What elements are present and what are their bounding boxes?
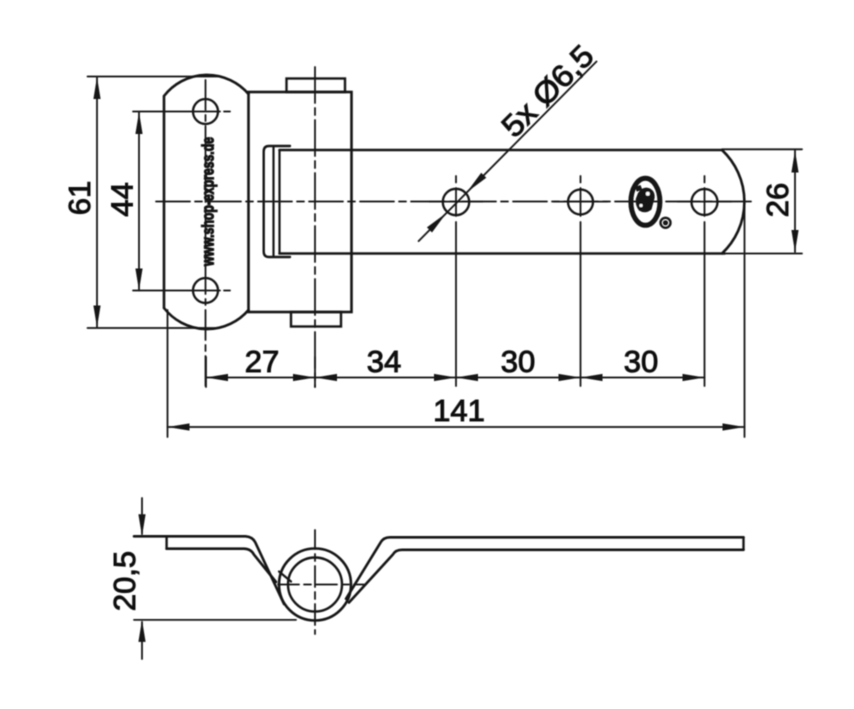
hole strap 3: [692, 189, 718, 215]
svg-text:141: 141: [433, 393, 485, 428]
side view right strap top line: [346, 537, 744, 599]
extension line plate top: [88, 76, 221, 78]
dimension 30 b: [581, 374, 705, 381]
dimension 20,5: [138, 498, 145, 659]
dimension 30 a: [456, 374, 581, 381]
svg-text:www.shop-express.de: www.shop-express.de: [200, 137, 218, 267]
hole crosshair horizontals strap: [429, 201, 732, 203]
vertical centerline knuckle: [314, 67, 316, 387]
dimension 141: [168, 423, 745, 430]
knuckle bottom cap: [291, 312, 341, 327]
logo R mark: [661, 218, 671, 228]
hole crosshair plate top: [133, 111, 230, 113]
side view knuckle inner circle: [288, 558, 342, 612]
dimension 27: [206, 374, 315, 381]
side view crosshair vertical: [314, 530, 316, 634]
hole crosshair plate bottom: [133, 290, 230, 292]
strap fold inner line: [272, 148, 274, 256]
extension line plate bottom: [88, 327, 216, 329]
centerline stub hole strap2: [580, 176, 582, 216]
side view knuckle outer circle: [279, 549, 351, 621]
svg-text:20,5: 20,5: [107, 551, 142, 611]
side view right strap bottom line: [349, 550, 744, 603]
logo ellipse: [631, 178, 660, 225]
hole strap 2: [568, 190, 593, 215]
knuckle top cap: [287, 79, 346, 93]
extension line right end: [744, 203, 746, 437]
extension line hole strap3: [704, 222, 706, 386]
hole plate top: [193, 99, 218, 124]
plate outline (left leaf, top view): [164, 75, 249, 329]
extension line strap bottom right: [724, 253, 802, 255]
dimension 44: [135, 112, 142, 291]
extension line hole strap2: [580, 222, 582, 386]
centerline stub hole strap3: [704, 176, 706, 216]
svg-text:26: 26: [760, 183, 795, 217]
strap outline (top view): [280, 150, 745, 254]
centerline stub hole strap1: [455, 176, 457, 216]
svg-text:44: 44: [105, 182, 140, 216]
extension line hole strap1: [455, 222, 457, 386]
dimension 61: [93, 77, 100, 328]
dimension chain ticks: [206, 357, 315, 387]
dimension 26: [791, 151, 798, 253]
extension line strap top right: [722, 148, 802, 150]
side view left leaf bottom line: [167, 549, 276, 582]
hole strap 1: [443, 189, 469, 215]
strap fold outer edge: [264, 146, 290, 257]
svg-text:30: 30: [501, 344, 535, 379]
horizontal centerline main: [156, 201, 756, 203]
knuckle body (top view): [249, 92, 352, 312]
svg-text:34: 34: [367, 344, 401, 379]
side view left leaf top line: [134, 536, 284, 604]
side view crosshair horizontal: [276, 584, 364, 586]
svg-text:30: 30: [624, 344, 658, 379]
side view right strap end cap: [742, 537, 744, 550]
logo letters: [635, 185, 655, 212]
side view left leaf end cap: [165, 536, 167, 548]
svg-text:61: 61: [62, 181, 97, 215]
extension line left end: [167, 310, 169, 437]
hole plate bottom: [193, 278, 218, 303]
vertical centerline plate holes: [205, 80, 207, 387]
svg-text:5x Ø6,5: 5x Ø6,5: [495, 38, 601, 144]
svg-text:27: 27: [245, 344, 279, 379]
dimension 34: [315, 374, 456, 381]
side view sheet end notch: [279, 572, 291, 582]
leader line 5x dia6,5: [419, 62, 597, 242]
side view bottom extension line: [134, 619, 296, 621]
strap left end edge: [278, 150, 280, 254]
